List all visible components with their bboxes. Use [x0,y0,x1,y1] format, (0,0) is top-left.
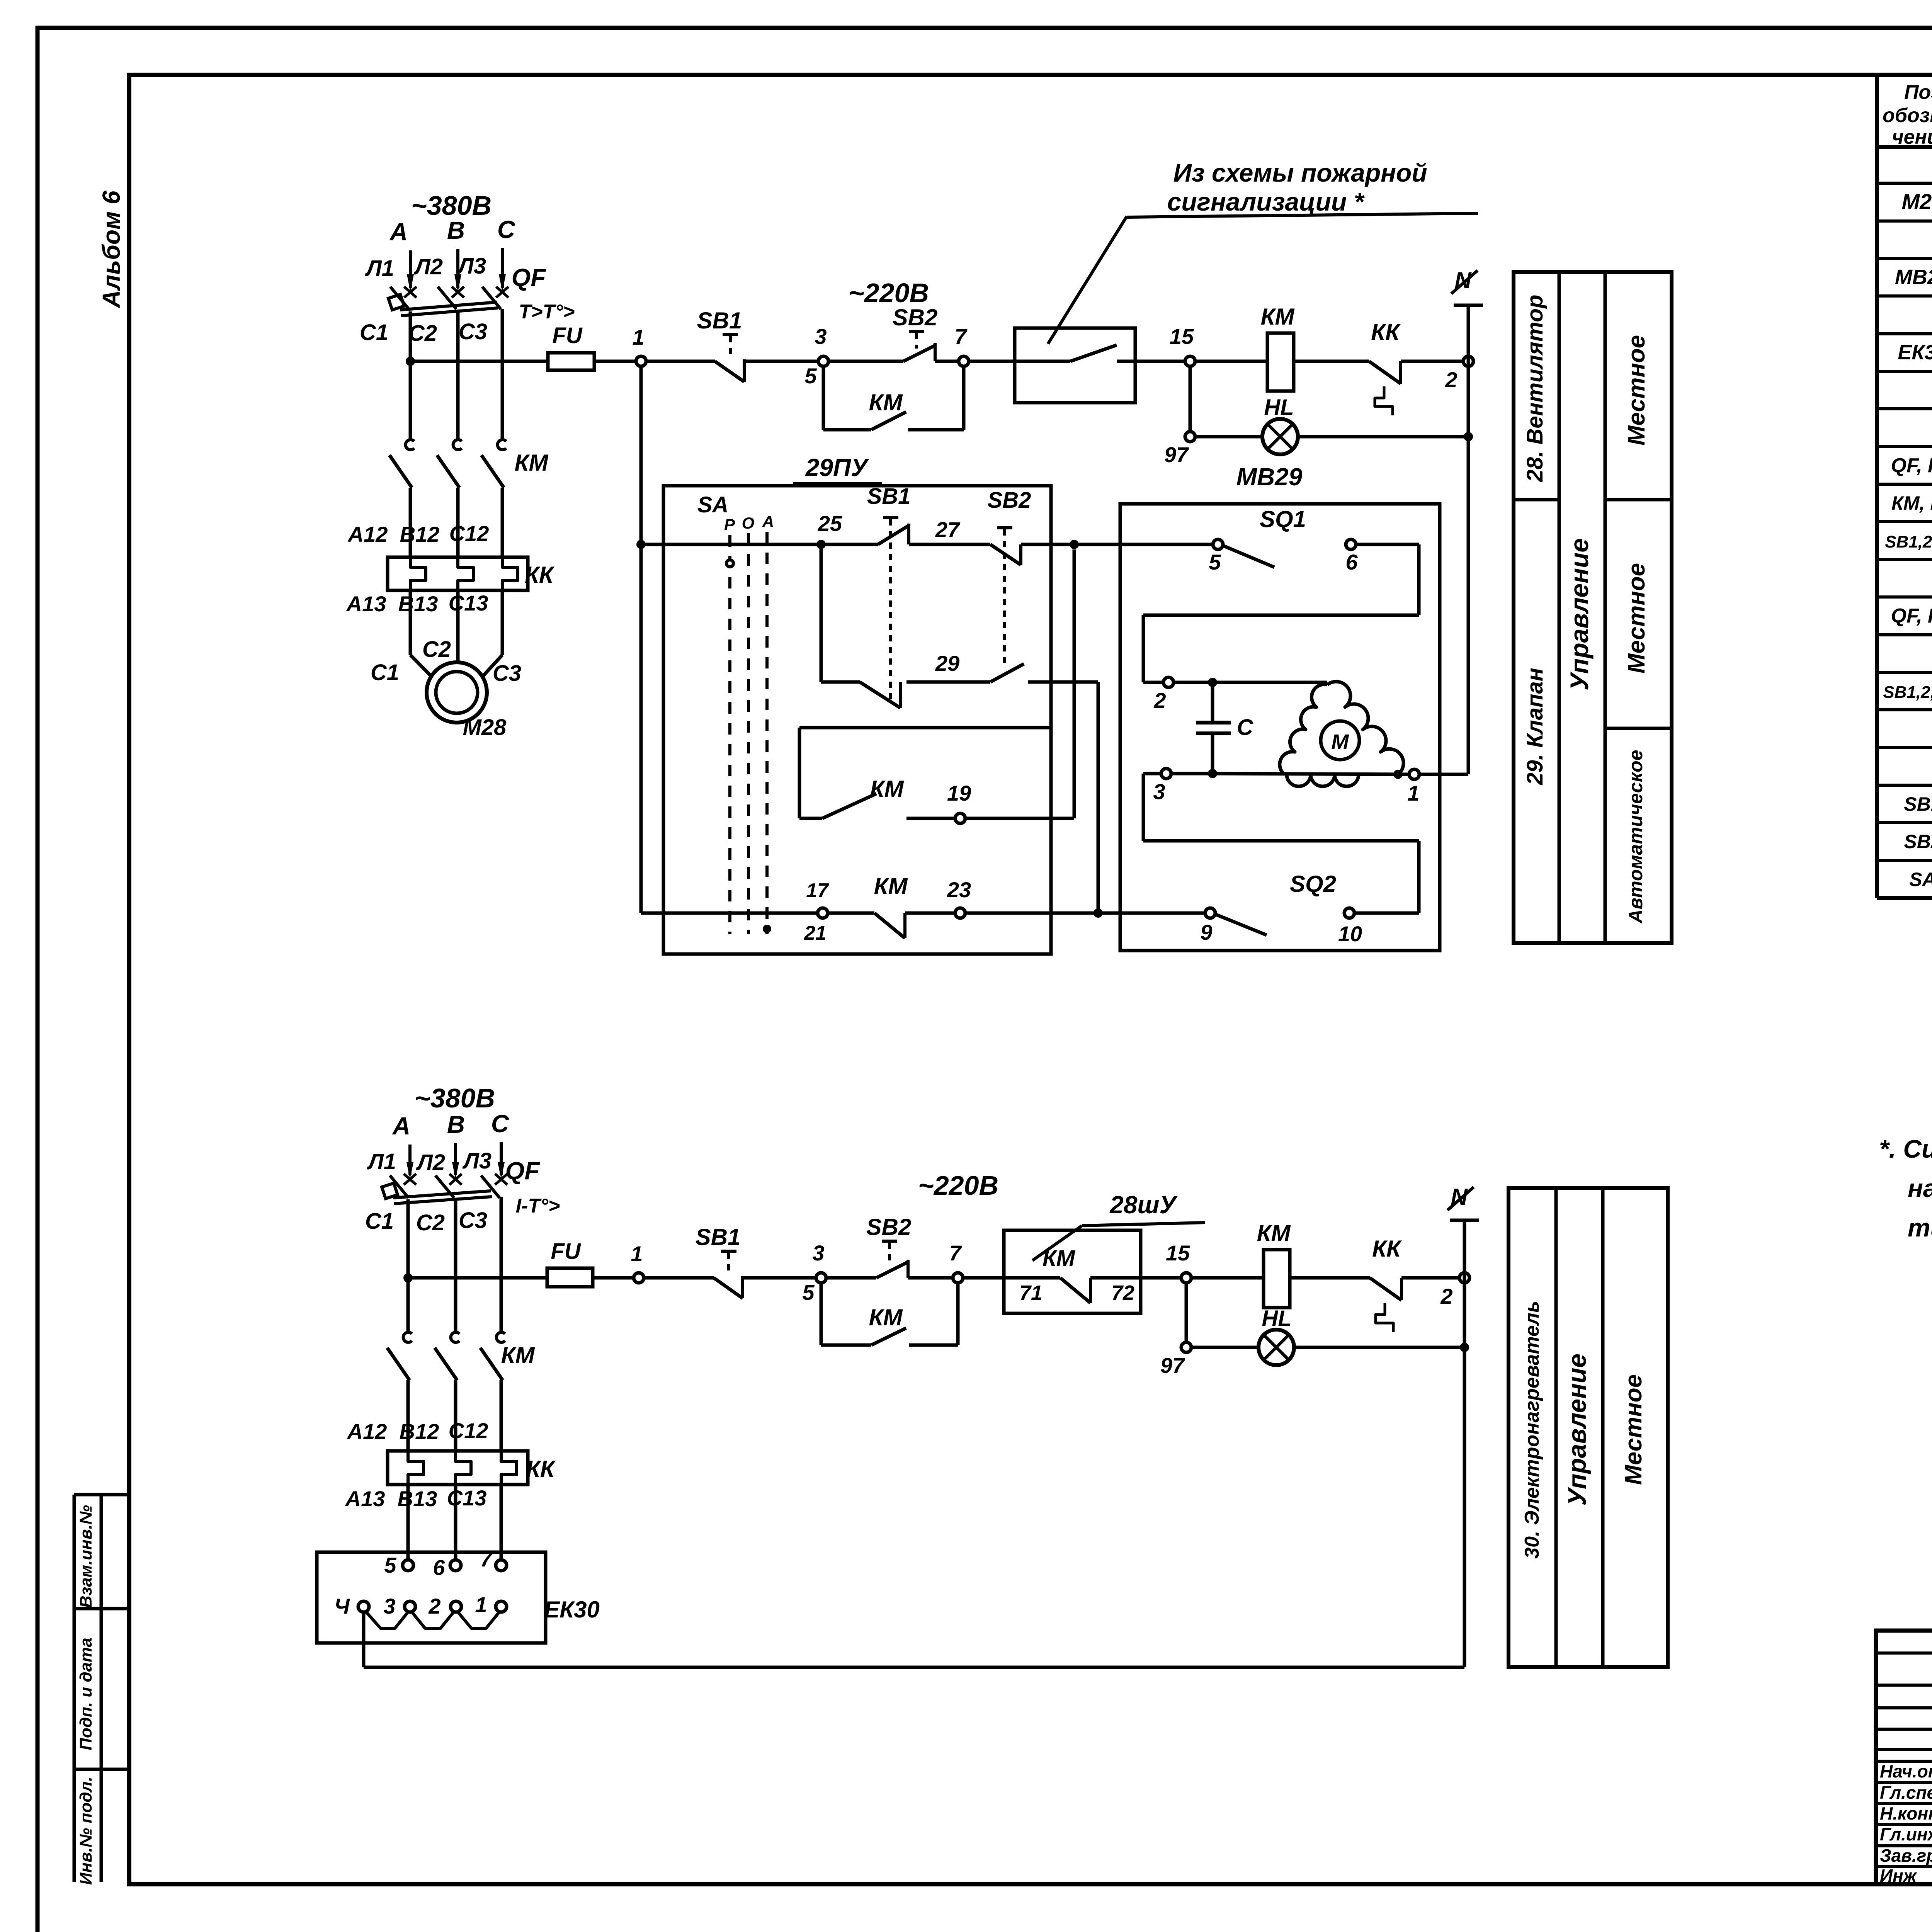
wire from node25 down to row29 [820,544,823,682]
svg-text:С13: С13 [449,591,488,615]
svg-text:Л3: Л3 [457,253,486,279]
svg-text:С12: С12 [449,521,489,546]
svg-text:~220В: ~220В [918,1170,998,1201]
svg-text:Взам.инв.№: Взам.инв.№ [77,1505,95,1608]
svg-text:97: 97 [1164,442,1189,467]
svg-text:Альбом 6: Альбом 6 [97,190,125,309]
motor feed wires top [409,590,412,655]
svg-text:2: 2 [1445,367,1457,392]
svg-text:SB1,2, HL: SB1,2, HL [1883,683,1932,702]
row 29 contacts [821,680,860,684]
wire node1 to SB1 bottom [644,1276,714,1280]
node 15 top [1185,356,1195,366]
svg-text:9: 9 [1200,920,1212,944]
svg-text:QF, FU: QF, FU [1891,454,1932,477]
heater elements zigzag [366,1611,408,1628]
wire node7 to fire-alarm box [969,360,1070,363]
svg-text:С: С [497,216,515,243]
svg-text:Н.контр: Н.контр [1880,1803,1932,1823]
svg-text:А13: А13 [345,1486,385,1511]
contactor coil KM top [1267,333,1294,391]
svg-text:М28: М28 [1902,189,1932,214]
wire node15 to KM coil [1195,360,1267,363]
title block left rows [1876,1651,1932,1655]
wire KK to node2 bottom [1401,1276,1459,1280]
svg-text:SA: SA [1909,869,1932,890]
svg-text:71: 71 [1019,1281,1043,1304]
svg-text:19: 19 [947,781,971,805]
svg-text:3: 3 [812,1241,824,1265]
junction row29 to bottom row [1094,908,1103,918]
svg-text:30. Электронагреватель: 30. Электронагреватель [1521,1301,1543,1559]
svg-text:КМ: КМ [874,873,908,899]
svg-text:SB2: SB2 [1904,831,1932,852]
EK30 terminals 5 6 7 [403,1560,413,1571]
svg-text:С: С [1237,715,1253,740]
svg-text:1: 1 [631,1242,643,1266]
svg-text:2: 2 [1153,688,1166,713]
svg-text:М28: М28 [463,715,507,740]
svg-text:1: 1 [1407,781,1419,805]
svg-text:SQ1: SQ1 [1260,506,1306,532]
svg-text:Инв.№ подл.: Инв.№ подл. [77,1777,95,1885]
svg-text:23: 23 [947,878,971,902]
node 1 top [636,356,646,366]
svg-text:29. Клапан: 29. Клапан [1522,668,1548,785]
node 7 bottom [953,1273,963,1283]
svg-text:5: 5 [1209,550,1221,574]
EK30 terminals 4 3 2 1 [358,1601,369,1612]
wire node1 to SB1 [646,360,715,363]
svg-text:С1: С1 [360,320,388,345]
svg-text:97: 97 [1160,1353,1185,1378]
electric heater box EK30 [317,1552,546,1643]
svg-text:FU: FU [551,1239,581,1264]
svg-text:21: 21 [804,922,827,944]
parts list table grid [1875,77,1879,898]
svg-text:SB1: SB1 [696,1224,741,1250]
node 2 motor [1163,677,1173,687]
node 2 top [1463,356,1473,366]
thermal relay KK heaters bottom [388,1451,528,1485]
fire alarm contact box [1015,328,1135,403]
function table heater [1509,1188,1668,1667]
phase lead-in arrows top [409,250,412,288]
wire coil to KK contact [1294,360,1369,363]
svg-text:SB1: SB1 [697,308,742,333]
svg-text:7: 7 [954,324,968,349]
wire node15 down to 97 bottom [1185,1283,1188,1342]
svg-text:SA: SA [697,492,729,517]
svg-text:Подп. и дата: Подп. и дата [77,1638,95,1750]
svg-text:Автоматическое: Автоматическое [1625,750,1646,924]
svg-text:QF: QF [512,264,547,291]
node 15 bottom [1181,1273,1191,1283]
svg-text:КК: КК [525,562,555,588]
bottom row wire 17/21 - 23 [641,912,818,915]
svg-text:5: 5 [802,1280,815,1304]
svg-text:КМ: КМ [1257,1220,1291,1246]
node 1 motor [1409,769,1419,779]
svg-text:15: 15 [1170,324,1194,349]
wire node1 vertical feed [639,366,643,913]
N wire vertical bottom [1463,1220,1466,1667]
node 1 bottom [634,1273,644,1283]
wire fuse to node 1 [594,360,636,363]
motor symbol M [1321,721,1359,760]
wire node15 to coil bottom [1191,1276,1264,1280]
svg-text:SB1,2;HL: SB1,2;HL [1885,532,1932,551]
svg-text:В13: В13 [398,1486,437,1511]
svg-text:I-Т°>: I-Т°> [516,1195,560,1217]
title block outline [1876,1631,1932,1884]
svg-text:*. Система пожаротушения: *. Система пожаротушения и пожарная сиг- [1879,1134,1932,1163]
svg-text:Поз: Поз [1904,81,1932,104]
wire SB1 to node 3 [744,360,818,363]
wire y1883 interlock [799,726,1051,730]
svg-text:17: 17 [806,879,829,902]
svg-text:нализация разрабатываются: нализация разрабатываются при привязке [1908,1174,1932,1202]
start button SB2 bottom [826,1276,876,1280]
wire 29PU top row 25-27 [636,540,646,549]
svg-text:10: 10 [1338,922,1362,946]
svg-text:В13: В13 [398,592,438,616]
svg-text:2: 2 [1440,1284,1452,1308]
svg-text:ЕК30: ЕК30 [1898,341,1932,364]
svg-text:КК: КК [1371,319,1401,345]
svg-text:С3: С3 [459,319,487,344]
svg-text:Л1: Л1 [365,256,394,281]
svg-text:Управление: Управление [1565,538,1594,690]
node 3/5 top [818,356,828,366]
leader line to fire box [1048,216,1127,344]
svg-text:КК: КК [526,1456,556,1482]
N wire vertical top [1467,305,1470,774]
control wire bus to fuse [410,360,548,363]
svg-text:В: В [447,216,465,244]
svg-text:6: 6 [1345,550,1358,574]
start button SB2 top [828,360,903,363]
node 97 bottom [1181,1342,1191,1352]
svg-text:С2: С2 [416,1210,445,1235]
QF pole wires down to bus bottom [406,1199,410,1283]
svg-text:чение: чение [1892,126,1932,148]
svg-text:28. Вентилятор: 28. Вентилятор [1522,295,1548,483]
wire coil to KK bottom [1290,1276,1370,1280]
node: bus junction top [406,357,415,366]
svg-text:28шУ: 28шУ [1109,1191,1178,1219]
svg-text:КМ: КМ [515,450,549,476]
svg-text:Зав.гр: Зав.гр [1880,1845,1932,1866]
svg-text:FU: FU [552,323,583,348]
svg-text:сигнализации *: сигнализации * [1167,187,1365,216]
svg-text:С12: С12 [449,1418,488,1443]
svg-text:Гл.спец.: Гл.спец. [1880,1782,1932,1803]
svg-text:Местное: Местное [1623,563,1650,673]
svg-text:Л2: Л2 [413,254,443,279]
svg-text:С2: С2 [422,637,451,662]
svg-text:С13: С13 [447,1486,487,1510]
svg-text:2: 2 [428,1594,440,1618]
KM self-hold branch bottom [820,1283,823,1345]
svg-text:Местное: Местное [1620,1374,1647,1485]
contactor coil KM bottom [1264,1250,1290,1308]
svg-text:SQ2: SQ2 [1290,871,1336,897]
junction dot HL to N [1464,432,1473,441]
QF pole wires down to bus [409,311,412,366]
motor M28 [427,662,487,723]
svg-text:КМ: КМ [1261,304,1295,330]
svg-text:5: 5 [804,364,817,388]
node 97 top [1185,432,1195,442]
svg-text:25: 25 [818,511,842,536]
fuse FU top [548,353,594,370]
node bus junction bottom [403,1273,413,1282]
node 17/21 [818,908,828,918]
wires to heater terminals [406,1485,410,1560]
wire SB1 to node3 bottom [743,1276,816,1280]
svg-text:QF, FU: QF, FU [1891,605,1932,627]
wire fuse to node1 bottom [593,1276,634,1280]
svg-text:КМ, КК: КМ, КК [1891,492,1932,514]
node 23 [955,908,965,918]
svg-text:29ПУ: 29ПУ [805,454,869,481]
wire SB2 to node 7 [935,360,959,363]
svg-text:29: 29 [935,651,959,675]
function table ventilator/valve [1514,272,1672,943]
svg-text:7: 7 [480,1547,493,1571]
svg-text:О: О [742,514,755,532]
capacitor C [1211,682,1214,723]
svg-text:7: 7 [949,1241,962,1265]
svg-text:~220В: ~220В [849,278,929,308]
svg-text:SB2: SB2 [988,488,1031,513]
svg-text:КМ: КМ [1043,1246,1076,1271]
svg-text:обозна-: обозна- [1883,104,1932,127]
wire node3 to node1 motor bottom [1171,772,1213,776]
svg-text:А12: А12 [347,1419,387,1444]
left stamp strip cells [73,1495,76,1882]
svg-text:КМ: КМ [870,776,905,802]
svg-text:SB1: SB1 [867,484,911,509]
KM self-hold contact branch top [822,366,825,430]
svg-text:С3: С3 [493,661,521,686]
svg-text:КК: КК [1372,1236,1402,1262]
svg-text:А: А [389,218,408,246]
svg-text:В12: В12 [400,1419,439,1444]
svg-text:5: 5 [384,1553,396,1577]
svg-text:ЕК30: ЕК30 [544,1597,600,1622]
thermal relay KK heaters top [388,557,528,590]
svg-text:типового проекта.: типового проекта. [1908,1213,1932,1242]
svg-text:В: В [447,1111,465,1138]
wire node15 down to node 97 [1189,366,1192,432]
svg-text:Из схемы пожарной: Из схемы пожарной [1173,158,1427,187]
svg-text:А12: А12 [347,522,388,546]
node 7 top [959,356,969,366]
fuse FU bottom [547,1268,593,1287]
svg-text:Гл.инж.пр: Гл.инж.пр [1880,1824,1932,1844]
svg-text:72: 72 [1111,1281,1134,1304]
node 3 motor [1161,769,1171,779]
svg-text:Ч: Ч [334,1594,350,1618]
svg-text:3: 3 [815,324,827,349]
svg-text:Т>Т°>: Т>Т°> [519,301,575,323]
svg-text:Л1: Л1 [367,1149,396,1174]
svg-text:С: С [491,1110,509,1138]
junction top row to MB29 [1070,540,1079,549]
svg-text:SB2: SB2 [893,304,938,330]
motor MB29 winding delta [1287,774,1359,786]
svg-text:В12: В12 [400,522,440,546]
svg-text:Р: Р [724,515,735,534]
svg-text:Местное: Местное [1623,335,1650,446]
node 25 [816,540,826,549]
svg-text:3: 3 [383,1594,395,1618]
wire bus to fuse bottom [408,1276,547,1280]
phase lead-in arrows bottom [408,1145,412,1175]
svg-text:КМ: КМ [869,1304,903,1330]
contactor KM main contacts bottom [406,1283,410,1333]
svg-text:QF: QF [505,1157,541,1185]
node 19 [955,813,965,823]
svg-text:МВ29: МВ29 [1895,265,1932,289]
svg-text:6: 6 [433,1555,445,1580]
svg-text:С1: С1 [365,1209,394,1234]
wire KK to node 2 [1401,360,1463,363]
svg-text:27: 27 [935,517,961,542]
svg-text:Управление: Управление [1563,1354,1591,1506]
svg-text:Л3: Л3 [462,1148,492,1173]
svg-text:1: 1 [632,325,644,349]
svg-text:А13: А13 [346,592,386,616]
contactor KM main contacts top [409,366,412,440]
svg-text:С2: С2 [408,321,437,346]
svg-text:HL: HL [1262,1306,1291,1331]
svg-text:МВ29: МВ29 [1236,463,1303,491]
svg-text:А: А [392,1112,410,1140]
svg-text:С3: С3 [459,1208,487,1233]
svg-text:М: М [1332,730,1349,753]
svg-text:КМ: КМ [869,389,903,415]
svg-text:Инж: Инж [1880,1866,1917,1886]
svg-text:15: 15 [1166,1241,1190,1265]
node 3/5 bottom [816,1273,826,1283]
svg-text:HL: HL [1264,395,1294,420]
node 2 bottom [1459,1273,1469,1283]
svg-text:3: 3 [1153,779,1165,804]
svg-text:КМ: КМ [501,1342,536,1368]
svg-text:SB2: SB2 [866,1214,912,1240]
svg-text:Нач.отд: Нач.отд [1880,1761,1932,1781]
heater return wire to N [362,1612,366,1667]
svg-text:Л2: Л2 [416,1150,445,1175]
svg-text:~380В: ~380В [415,1083,495,1113]
svg-text:А: А [762,512,774,531]
svg-text:С1: С1 [371,660,399,685]
svg-text:1: 1 [475,1592,487,1617]
svg-text:SB1: SB1 [1904,793,1932,815]
